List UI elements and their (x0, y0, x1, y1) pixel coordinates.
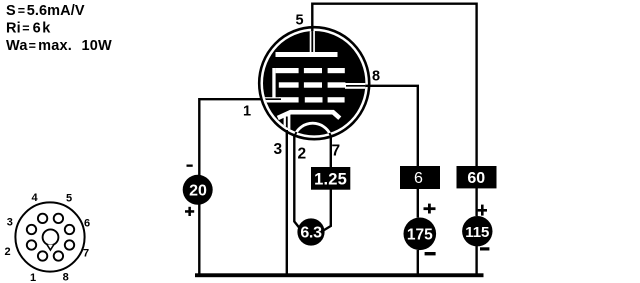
svg-text:3: 3 (7, 217, 13, 229)
anode voltmeter 115 (462, 216, 492, 246)
tube V1 envelope (259, 27, 369, 139)
svg-text:S=5.6mA/V: S=5.6mA/V (6, 3, 85, 19)
svg-text:Wa=max.10W: Wa=max.10W (6, 38, 112, 54)
socket pin 1 hole (38, 251, 47, 260)
plus sign of anode meter (478, 205, 487, 216)
wire pin8 to screen meter (346, 86, 418, 218)
svg-text:2: 2 (4, 246, 10, 258)
svg-text:60: 60 (467, 170, 485, 187)
svg-text:115: 115 (465, 224, 489, 241)
heater arc white (295, 123, 331, 136)
heater voltmeter 6.3 (297, 218, 324, 245)
svg-text:5: 5 (295, 13, 303, 29)
svg-text:7: 7 (83, 248, 89, 260)
svg-text:6: 6 (84, 218, 90, 230)
svg-text:1: 1 (30, 272, 36, 283)
socket pin 3 hole (27, 225, 36, 234)
anode ammeter 60 (457, 166, 497, 188)
grid g2 row dashes (279, 82, 346, 87)
pin1 lead core (258, 98, 281, 100)
socket spigot key notch (47, 245, 54, 251)
svg-text:8: 8 (372, 69, 380, 85)
socket pin 7 hole (65, 240, 74, 249)
wire screen meter to ground bus (417, 250, 419, 274)
grid voltmeter 20 (183, 175, 213, 205)
grid bracket to pin1 (272, 68, 275, 103)
wire pin1 to grid meter (199, 99, 262, 274)
svg-text:8: 8 (63, 272, 69, 283)
heater ammeter 1.25 (311, 167, 350, 190)
pin8 lead core (346, 85, 368, 87)
pin5 lead channel (310, 30, 315, 52)
anode plate bar (276, 52, 338, 57)
svg-text:175: 175 (407, 226, 433, 243)
socket pin 5 hole (54, 214, 63, 223)
heater arc outer black (295, 123, 331, 136)
wire top bus from pin5 to anode supply (312, 4, 476, 216)
pin8 lead channel (345, 83, 368, 89)
svg-text:4: 4 (31, 192, 38, 204)
screen ammeter 6 (400, 166, 440, 189)
pin3 lead channel (284, 114, 291, 132)
plus sign of screen meter (424, 204, 436, 214)
svg-text:2: 2 (297, 146, 306, 163)
grid g1 row dashes (279, 97, 345, 102)
minus sign of anode meter (480, 247, 489, 250)
wire heater left pin2 (294, 135, 299, 228)
pin5 lead core (311, 28, 313, 52)
svg-text:1: 1 (243, 104, 251, 120)
socket pin 6 hole (65, 225, 74, 234)
wire heater right pin7 (323, 135, 331, 231)
socket pin 4 hole (38, 214, 47, 223)
socket base outline (15, 202, 84, 271)
svg-text:20: 20 (189, 183, 207, 200)
minus sign of screen meter (425, 252, 436, 255)
svg-text:6: 6 (414, 170, 423, 187)
tube V1 body disc (263, 31, 365, 135)
svg-text:1.25: 1.25 (314, 171, 347, 189)
wire pin3 cathode to ground bus (286, 130, 288, 274)
socket spigot (43, 229, 59, 245)
svg-text:Ri=6k: Ri=6k (6, 21, 51, 37)
grid g3 row dashes (276, 68, 345, 73)
screen voltmeter 175 (404, 218, 437, 251)
wire anode meter to ground bus (475, 246, 477, 274)
ground bus bottom (195, 273, 484, 277)
socket pin 2 hole (27, 240, 36, 249)
socket pin 8 hole (54, 251, 63, 260)
svg-text:5: 5 (66, 193, 72, 205)
minus sign of grid meter (187, 165, 193, 167)
plus sign of grid meter (185, 207, 194, 216)
svg-text:3: 3 (273, 141, 282, 158)
svg-text:6.3: 6.3 (300, 225, 322, 242)
cathode (278, 112, 340, 118)
pin3 lead core (286, 117, 288, 134)
pin1 lead channel (258, 97, 281, 102)
svg-text:7: 7 (331, 142, 340, 159)
